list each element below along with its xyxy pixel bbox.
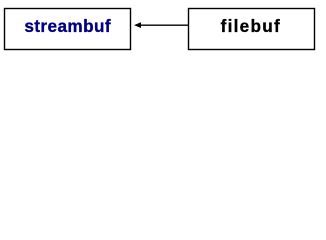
svg-text:filebuf: filebuf [221, 16, 281, 36]
svg-text:streambuf: streambuf [24, 16, 111, 36]
class box filebuf [189, 9, 315, 50]
inheritance arrowhead [134, 22, 141, 28]
class box streambuf [5, 9, 131, 50]
inheritance arrow shaft [141, 24, 189, 26]
